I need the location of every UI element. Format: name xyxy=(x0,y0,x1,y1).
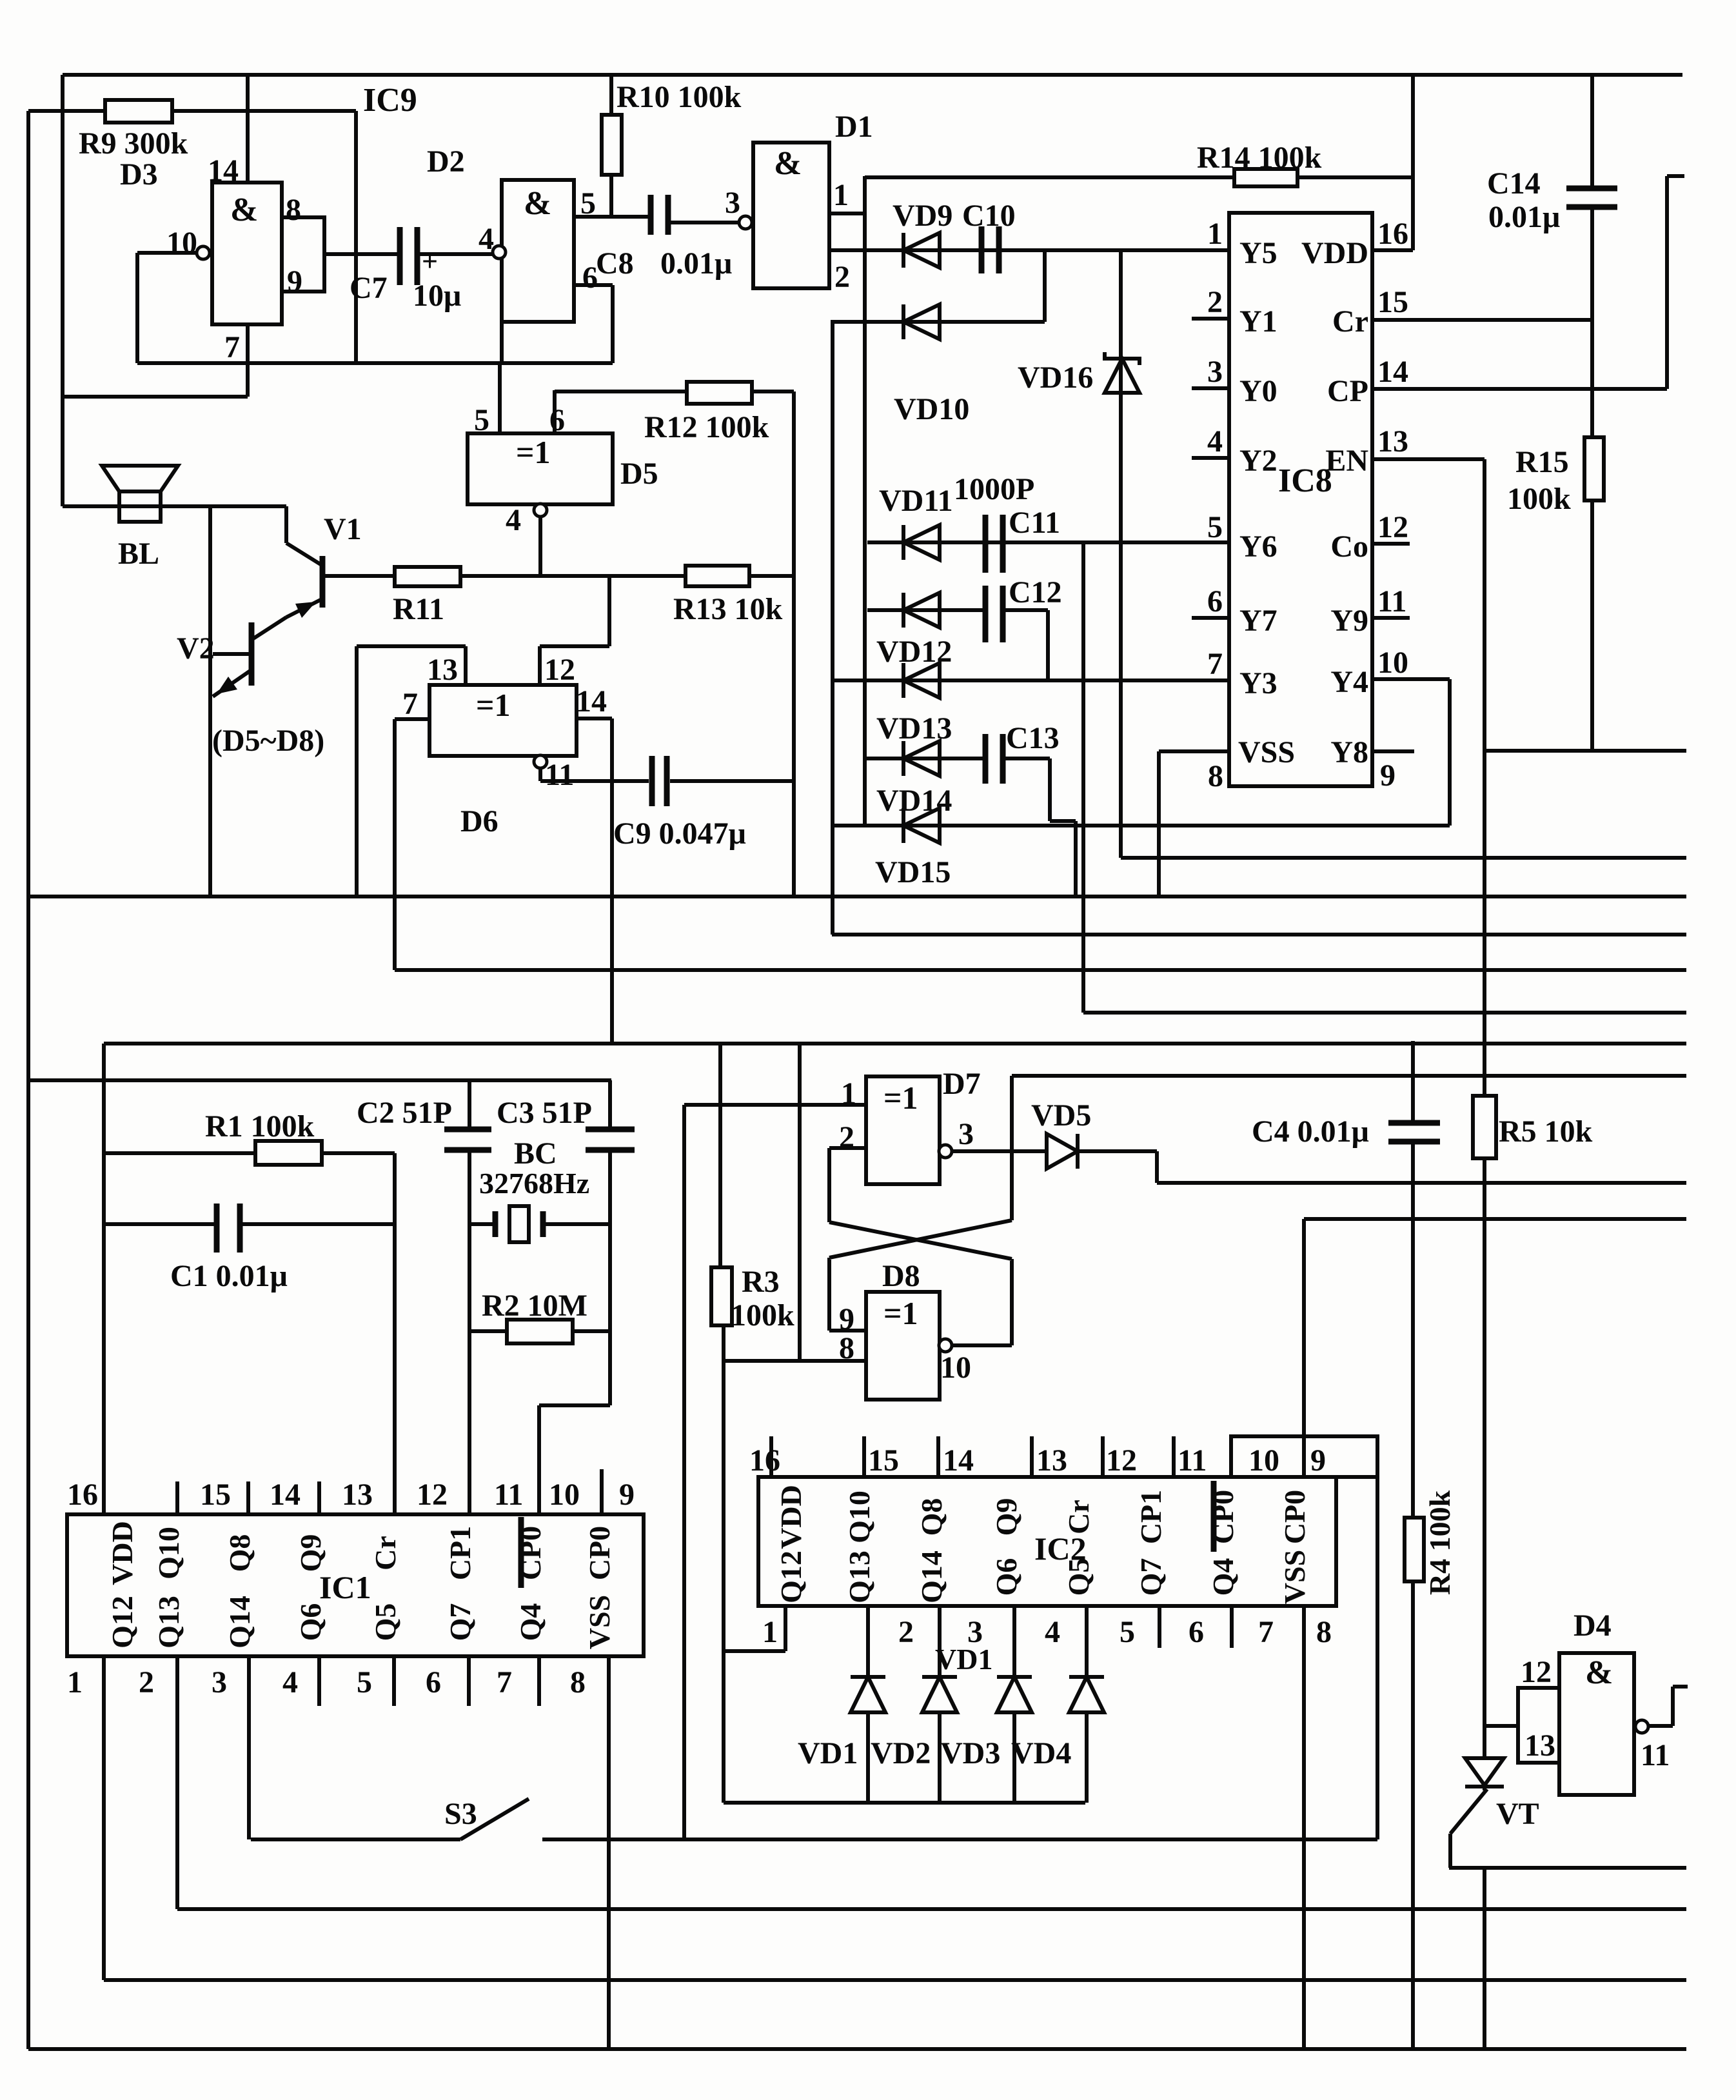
svg-text:8: 8 xyxy=(1316,1615,1332,1649)
svg-text:C11: C11 xyxy=(1009,506,1060,540)
svg-text:14: 14 xyxy=(208,154,239,188)
svg-text:CP1: CP1 xyxy=(444,1526,477,1580)
svg-text:5: 5 xyxy=(580,186,596,221)
svg-text:D5: D5 xyxy=(620,457,658,491)
svg-text:11: 11 xyxy=(545,758,574,792)
svg-text:6: 6 xyxy=(549,403,565,437)
svg-text:13: 13 xyxy=(427,653,458,687)
svg-text:16: 16 xyxy=(1377,217,1408,251)
svg-text:3: 3 xyxy=(212,1665,227,1699)
svg-text:IC8: IC8 xyxy=(1278,462,1332,499)
svg-text:7: 7 xyxy=(497,1665,512,1699)
svg-text:CP1: CP1 xyxy=(1134,1490,1167,1544)
svg-text:Q6: Q6 xyxy=(990,1558,1023,1596)
svg-text:Y2: Y2 xyxy=(1239,444,1277,478)
svg-text:C13: C13 xyxy=(1006,721,1060,755)
svg-text:10μ: 10μ xyxy=(413,279,461,313)
svg-text:8: 8 xyxy=(570,1665,586,1699)
svg-text:VD13: VD13 xyxy=(876,711,952,746)
svg-text:Q14: Q14 xyxy=(223,1596,256,1649)
svg-text:CP: CP xyxy=(1327,374,1368,408)
svg-text:2: 2 xyxy=(839,1120,854,1154)
svg-text:Q10: Q10 xyxy=(152,1527,185,1580)
svg-text:14: 14 xyxy=(576,684,607,718)
svg-text:6: 6 xyxy=(1189,1615,1204,1649)
svg-text:Y0: Y0 xyxy=(1239,374,1277,408)
svg-text:S3: S3 xyxy=(444,1797,477,1831)
svg-text:VD10: VD10 xyxy=(894,392,969,426)
svg-text:Cr: Cr xyxy=(1332,304,1368,339)
svg-text:CP0: CP0 xyxy=(1207,1490,1239,1544)
svg-text:Cr: Cr xyxy=(369,1536,402,1570)
svg-text:VSS: VSS xyxy=(1278,1550,1311,1604)
svg-text:+: + xyxy=(422,246,438,277)
svg-text:11: 11 xyxy=(1178,1443,1207,1478)
svg-text:D6: D6 xyxy=(460,804,498,838)
svg-text:Y4: Y4 xyxy=(1330,665,1368,699)
svg-text:12: 12 xyxy=(1106,1443,1137,1478)
svg-text:Q5: Q5 xyxy=(369,1603,402,1641)
svg-text:8: 8 xyxy=(1208,759,1223,793)
svg-text:(D5~D8): (D5~D8) xyxy=(212,724,324,758)
svg-text:Q13: Q13 xyxy=(152,1596,185,1649)
svg-text:7: 7 xyxy=(1258,1615,1274,1649)
svg-text:9: 9 xyxy=(1310,1443,1326,1478)
svg-text:8: 8 xyxy=(286,193,301,227)
svg-text:VD9: VD9 xyxy=(893,199,952,233)
svg-text:2: 2 xyxy=(898,1615,914,1649)
svg-text:D4: D4 xyxy=(1573,1609,1612,1643)
svg-text:4: 4 xyxy=(282,1665,298,1699)
svg-text:IC1: IC1 xyxy=(319,1569,371,1605)
svg-text:=1: =1 xyxy=(883,1295,918,1331)
svg-text:Co: Co xyxy=(1330,530,1368,564)
svg-text:R13 10k: R13 10k xyxy=(673,592,783,626)
svg-text:R12 100k: R12 100k xyxy=(644,410,769,444)
svg-text:VD2: VD2 xyxy=(871,1736,931,1770)
svg-text:0.01μ: 0.01μ xyxy=(1488,200,1560,234)
svg-text:C7: C7 xyxy=(350,271,388,305)
svg-text:Y9: Y9 xyxy=(1330,604,1368,638)
svg-text:C4 0.01μ: C4 0.01μ xyxy=(1252,1114,1369,1149)
svg-text:R14 100k: R14 100k xyxy=(1197,141,1322,175)
svg-text:9: 9 xyxy=(1380,758,1396,793)
svg-text:8: 8 xyxy=(839,1331,854,1365)
svg-text:13: 13 xyxy=(1524,1729,1555,1763)
svg-text:&: & xyxy=(774,145,802,182)
svg-text:4: 4 xyxy=(1045,1615,1060,1649)
svg-text:5: 5 xyxy=(357,1665,372,1699)
svg-text:R1 100k: R1 100k xyxy=(205,1109,315,1144)
svg-text:15: 15 xyxy=(868,1443,899,1478)
svg-text:V1: V1 xyxy=(324,512,362,546)
svg-text:16: 16 xyxy=(749,1443,780,1478)
svg-text:VDD: VDD xyxy=(106,1521,139,1585)
svg-text:R5 10k: R5 10k xyxy=(1499,1114,1593,1149)
svg-text:=1: =1 xyxy=(883,1080,918,1116)
svg-text:VD16: VD16 xyxy=(1018,361,1093,395)
svg-text:Q5: Q5 xyxy=(1062,1558,1095,1596)
svg-text:VDD: VDD xyxy=(1301,236,1368,270)
svg-text:2: 2 xyxy=(139,1665,154,1699)
svg-text:R11: R11 xyxy=(393,592,444,626)
svg-text:7: 7 xyxy=(402,687,418,721)
svg-text:Q9: Q9 xyxy=(294,1534,327,1572)
svg-text:D3: D3 xyxy=(120,157,158,192)
svg-text:Q9: Q9 xyxy=(990,1498,1023,1536)
svg-text:11: 11 xyxy=(1641,1738,1670,1772)
svg-text:C2 51P: C2 51P xyxy=(357,1096,452,1130)
svg-text:3: 3 xyxy=(958,1117,974,1151)
svg-text:100k: 100k xyxy=(731,1298,794,1332)
svg-text:=1: =1 xyxy=(516,434,551,470)
svg-text:Y6: Y6 xyxy=(1239,530,1277,564)
svg-text:Y8: Y8 xyxy=(1330,735,1368,769)
svg-text:6: 6 xyxy=(426,1665,441,1699)
svg-text:Q13: Q13 xyxy=(843,1550,876,1603)
svg-text:1: 1 xyxy=(1207,217,1223,251)
svg-text:2: 2 xyxy=(834,260,850,294)
svg-text:32768Hz: 32768Hz xyxy=(479,1167,589,1200)
svg-text:CP0: CP0 xyxy=(1278,1490,1311,1544)
svg-text:VD1: VD1 xyxy=(798,1736,858,1770)
svg-text:D8: D8 xyxy=(882,1259,920,1293)
svg-text:R9 300k: R9 300k xyxy=(79,126,188,161)
svg-text:12: 12 xyxy=(1521,1655,1552,1689)
svg-text:Q12: Q12 xyxy=(774,1550,807,1603)
svg-text:R10 100k: R10 100k xyxy=(616,80,742,114)
svg-text:Q4: Q4 xyxy=(514,1603,547,1641)
svg-text:IC9: IC9 xyxy=(363,82,417,119)
svg-text:Q7: Q7 xyxy=(1134,1558,1167,1596)
svg-text:D2: D2 xyxy=(427,144,465,179)
svg-text:9: 9 xyxy=(619,1478,635,1512)
svg-text:C8: C8 xyxy=(596,246,634,281)
svg-text:VD1: VD1 xyxy=(935,1643,992,1676)
svg-text:C10: C10 xyxy=(962,199,1016,233)
svg-text:CP0: CP0 xyxy=(514,1526,547,1580)
svg-text:0.01μ: 0.01μ xyxy=(660,246,732,281)
svg-text:VDD: VDD xyxy=(774,1485,807,1549)
svg-text:D7: D7 xyxy=(943,1067,981,1101)
svg-text:VSS: VSS xyxy=(1238,735,1295,769)
svg-text:7: 7 xyxy=(224,330,240,364)
svg-text:Q12: Q12 xyxy=(106,1596,139,1649)
svg-text:Q6: Q6 xyxy=(294,1603,327,1641)
svg-text:13: 13 xyxy=(1036,1443,1067,1478)
svg-text:13: 13 xyxy=(342,1478,373,1512)
svg-text:VD4: VD4 xyxy=(1011,1736,1071,1770)
svg-text:R4 100k: R4 100k xyxy=(1423,1490,1456,1595)
svg-text:BL: BL xyxy=(118,537,159,571)
svg-text:R2 10M: R2 10M xyxy=(482,1289,587,1323)
svg-text:15: 15 xyxy=(200,1478,231,1512)
svg-text:1: 1 xyxy=(841,1076,856,1111)
svg-text:7: 7 xyxy=(1207,647,1223,681)
svg-text:VD3: VD3 xyxy=(940,1736,1000,1770)
svg-text:Q7: Q7 xyxy=(444,1603,477,1641)
svg-text:9: 9 xyxy=(287,264,302,299)
svg-text:10: 10 xyxy=(166,226,197,260)
svg-text:C9 0.047μ: C9 0.047μ xyxy=(613,817,746,851)
svg-text:C14: C14 xyxy=(1487,166,1541,201)
svg-text:D1: D1 xyxy=(835,110,873,144)
svg-text:5: 5 xyxy=(1207,510,1223,544)
svg-text:=1: =1 xyxy=(476,687,511,723)
svg-text:11: 11 xyxy=(1377,584,1406,619)
svg-text:Cr: Cr xyxy=(1062,1500,1095,1534)
svg-text:VD15: VD15 xyxy=(875,855,951,889)
svg-text:1000P: 1000P xyxy=(954,472,1034,506)
svg-text:4: 4 xyxy=(506,503,521,537)
svg-text:C12: C12 xyxy=(1009,575,1062,609)
svg-text:3: 3 xyxy=(1207,355,1223,389)
svg-text:&: & xyxy=(524,185,551,222)
svg-text:CP0: CP0 xyxy=(583,1526,616,1580)
svg-text:Q8: Q8 xyxy=(223,1534,256,1572)
svg-text:&: & xyxy=(1585,1654,1613,1691)
svg-text:&: & xyxy=(230,192,258,228)
svg-text:VD14: VD14 xyxy=(876,784,952,818)
svg-text:VSS: VSS xyxy=(583,1595,616,1649)
svg-text:4: 4 xyxy=(1207,424,1223,459)
svg-text:4: 4 xyxy=(478,222,494,256)
svg-text:12: 12 xyxy=(1377,510,1408,544)
svg-text:R15: R15 xyxy=(1515,445,1569,479)
svg-text:BC: BC xyxy=(514,1136,557,1171)
svg-text:1: 1 xyxy=(833,178,849,212)
svg-text:Y7: Y7 xyxy=(1239,604,1277,638)
svg-text:Q4: Q4 xyxy=(1207,1558,1239,1596)
svg-text:5: 5 xyxy=(474,403,489,437)
svg-text:14: 14 xyxy=(270,1478,301,1512)
svg-text:14: 14 xyxy=(943,1443,974,1478)
svg-text:13: 13 xyxy=(1377,424,1408,459)
svg-text:VD11: VD11 xyxy=(879,484,953,518)
svg-text:10: 10 xyxy=(940,1351,971,1385)
svg-text:VD5: VD5 xyxy=(1031,1098,1091,1133)
svg-text:1: 1 xyxy=(762,1615,778,1649)
svg-text:16: 16 xyxy=(67,1478,98,1512)
svg-text:Q14: Q14 xyxy=(915,1550,948,1603)
svg-text:VT: VT xyxy=(1496,1797,1539,1831)
svg-text:10: 10 xyxy=(1377,646,1408,680)
svg-text:1: 1 xyxy=(67,1665,83,1699)
svg-text:6: 6 xyxy=(1207,584,1223,619)
svg-text:Q10: Q10 xyxy=(843,1491,876,1543)
svg-text:R3: R3 xyxy=(742,1265,780,1299)
svg-text:3: 3 xyxy=(967,1615,983,1649)
svg-text:12: 12 xyxy=(544,653,575,687)
svg-text:5: 5 xyxy=(1120,1615,1135,1649)
svg-text:Y5: Y5 xyxy=(1239,236,1277,270)
svg-text:2: 2 xyxy=(1207,285,1223,319)
svg-text:C3 51P: C3 51P xyxy=(497,1096,592,1130)
svg-text:15: 15 xyxy=(1377,285,1408,319)
svg-text:Q8: Q8 xyxy=(915,1498,948,1536)
svg-text:Y3: Y3 xyxy=(1239,666,1277,700)
svg-text:10: 10 xyxy=(549,1478,580,1512)
svg-text:VD12: VD12 xyxy=(876,635,952,669)
svg-text:3: 3 xyxy=(725,186,740,220)
svg-text:100k: 100k xyxy=(1507,482,1571,516)
svg-text:14: 14 xyxy=(1377,355,1408,389)
svg-text:Y1: Y1 xyxy=(1239,304,1277,339)
svg-text:12: 12 xyxy=(417,1478,448,1512)
svg-text:11: 11 xyxy=(494,1478,523,1512)
svg-text:V2: V2 xyxy=(177,631,215,666)
svg-text:C1 0.01μ: C1 0.01μ xyxy=(170,1259,288,1293)
svg-text:10: 10 xyxy=(1248,1443,1279,1478)
